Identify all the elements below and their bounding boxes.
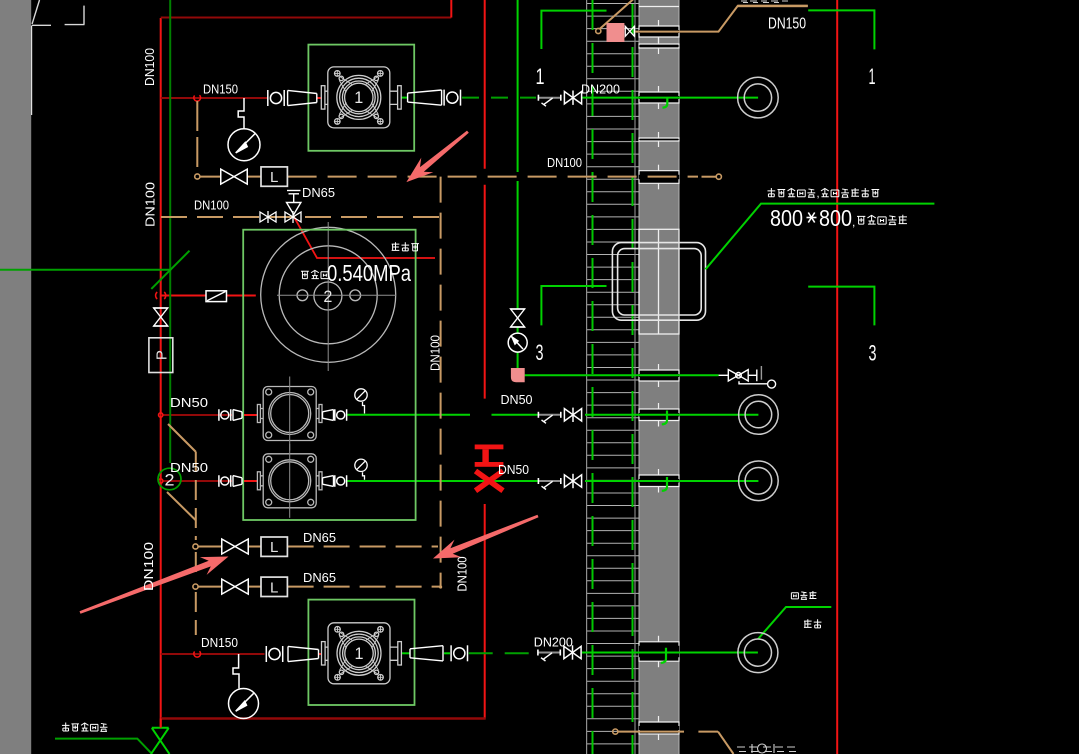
svg-text:L: L (270, 579, 278, 596)
valve V5 DN50 upper-left (219, 409, 231, 421)
pipe: DN100 tan line y=217 (161, 216, 441, 218)
pipe: DN200 top discharge green (dashed then solid) (402, 97, 408, 99)
reducer DN50 upper-left (233, 410, 242, 421)
pipe: red branch to tank (check valve line) (161, 295, 206, 297)
svg-text:DN100: DN100 (194, 198, 229, 213)
node: J-hook y=652 (661, 648, 666, 663)
wire: relief valve red leader (294, 216, 436, 258)
valve V3 DN150 bottom-left (266, 646, 282, 662)
wire: green slash across junction (151, 251, 189, 289)
valve V2 DN150 top-right (444, 90, 460, 106)
label: upper plate note (Chinese) (857, 216, 865, 224)
pipe: DN65 lower-2 (tan) (193, 584, 198, 589)
marker: arrow A3 (80, 557, 229, 614)
riser R4 (bell mouth) (738, 633, 778, 673)
svg-text:DN100: DN100 (455, 557, 470, 592)
pipe: DN150 top suction line (dark red) (161, 97, 268, 99)
pipe: bottom red header (dark) (161, 717, 486, 719)
wire: section bracket mid-right (808, 287, 874, 326)
ladder left stringer (586, 0, 588, 754)
marker: pink square mid (511, 368, 525, 382)
marker: pink square top (instrument) (607, 23, 625, 42)
label: manhole note (Chinese) (767, 188, 775, 197)
tank/pump 2 (large circle, plan) (261, 222, 396, 371)
wire: section bracket mid-left (541, 286, 606, 325)
node: junction DN50 upper (159, 413, 163, 417)
svg-text:DN65: DN65 (303, 570, 336, 585)
pipe: DN50 upper green discharge (346, 414, 470, 416)
svg-text:0.540MPa: 0.540MPa (327, 260, 411, 286)
wall openings (pipe sleeves) (639, 26, 679, 37)
gauge on green riser (508, 333, 527, 352)
box: pump P1 bottom enclosure (308, 600, 414, 705)
label: ditto (Chinese) (804, 619, 812, 627)
svg-text:DN50: DN50 (501, 392, 533, 407)
svg-text:DN100: DN100 (547, 155, 582, 170)
svg-text:DN150: DN150 (201, 635, 238, 650)
relief valve (spring) symbol (287, 191, 301, 215)
valve V19 on green riser (510, 309, 525, 327)
manhole cover (double rounded rect) (612, 243, 705, 321)
node: junction ring DN150 bottom (194, 651, 201, 657)
pump P1 bottom (322, 623, 402, 684)
reducer top-left (288, 90, 317, 105)
top-left partial wall symbols (32, 0, 39, 24)
svg-text:1: 1 (355, 645, 364, 663)
valve V17 DN200 bottom at ladder (538, 650, 560, 662)
svg-text:1: 1 (536, 64, 545, 89)
reducer top-right (408, 90, 442, 105)
partial text sliver bottom right (737, 744, 796, 753)
valve V18 on sensor branch (153, 308, 168, 326)
svg-text:3: 3 (536, 340, 544, 365)
svg-text:L: L (270, 169, 278, 186)
node: pump group tag 2 (green ellipse) (158, 468, 181, 490)
node: J-hook y=481 (662, 477, 667, 491)
gauge PG1 with siphon, top (238, 98, 244, 129)
svg-text:,: , (852, 215, 855, 229)
label: relief valve (Chinese) (392, 242, 400, 250)
pipe: tan vertical x=441 (440, 177, 442, 587)
ladder / stair treads (587, 4, 639, 744)
pipe: main red riser left (vertical) (160, 18, 162, 727)
svg-text:800: 800 (770, 205, 803, 231)
green guide line left (dashed) (592, 0, 594, 754)
pipe: DN200 bottom discharge green (402, 652, 410, 654)
svg-text:DN50: DN50 (498, 462, 529, 477)
manhole wall panel (639, 229, 679, 334)
pump P3 lower DN50 (257, 444, 322, 518)
valve V6 DN50 upper-right (335, 409, 347, 421)
pipe: DN150 bottom suction line (dark red) (161, 653, 265, 655)
wire: section bracket top-left (541, 11, 606, 49)
svg-text:DN100: DN100 (141, 542, 156, 591)
node: J-hook at wall top (663, 98, 668, 107)
svg-text:DN100: DN100 (143, 182, 158, 227)
svg-text:DN50: DN50 (170, 395, 208, 410)
svg-text:3: 3 (869, 341, 877, 366)
wire: tank level gauge tan leader (596, 28, 601, 33)
valve V12 small DN100 (260, 211, 276, 223)
reducer bottom-left (288, 646, 319, 661)
pipe: DN50 lower green discharge (346, 480, 538, 482)
valve V7 DN50 lower-left (219, 475, 231, 487)
valve V10 butterfly DN65 (222, 539, 249, 554)
svg-text:DN65: DN65 (302, 185, 335, 200)
reducer DN50 upper-right (323, 410, 334, 421)
pipe: tan vertical x=196 (195, 452, 197, 540)
riser R3 (739, 461, 779, 501)
svg-text:DN150: DN150 (203, 82, 238, 97)
wire: section bracket top-right (808, 10, 874, 49)
label: HX red mark (rotated) (475, 445, 504, 467)
gauge G2 DN50 lower (355, 459, 367, 480)
valve V15 DN50 at ladder (538, 412, 560, 424)
pipe: DN50 lower line (dark red) (161, 480, 232, 482)
node: junction marker at red branch (156, 292, 166, 299)
gauge PG2 with siphon, bottom (233, 654, 239, 688)
green guide line right (dashed) (632, 4, 634, 754)
valve V8 DN50 lower-right (335, 475, 347, 487)
valve V13 small DN100 (relief) (285, 211, 301, 223)
gauge G1 DN50 upper (355, 389, 367, 414)
pipe: green vertical conduit x=170 (169, 0, 171, 463)
pipe: red vertical x=485 (484, 0, 486, 169)
valve V20 with cap, line y=375 (719, 366, 776, 388)
valve V14 DN200 top at ladder (538, 95, 560, 107)
box: pump P1 top enclosure (308, 45, 414, 151)
svg-text:1: 1 (354, 89, 363, 107)
marker: arrow A2 (433, 515, 539, 559)
partial text sliver top (741, 1, 788, 3)
wire: manhole green leader (706, 204, 935, 270)
node: J-hook y=415 (662, 411, 667, 425)
pipe: top red header (dark) (161, 17, 452, 19)
valve V4 DN150 bottom-right (451, 645, 467, 661)
svg-text:L: L (270, 539, 278, 556)
pump P3 upper DN50 (257, 377, 322, 451)
svg-text:2: 2 (323, 288, 332, 306)
svg-text:800: 800 (819, 205, 852, 231)
svg-text:DN100: DN100 (142, 48, 157, 86)
limit switch box L1 (261, 167, 287, 186)
box: pump group 2 enclosure (243, 230, 415, 520)
label: water hammer arrester (Chinese) (62, 723, 70, 732)
svg-text:DN50: DN50 (170, 460, 208, 475)
pipe: green horizontal inlet y=270 (0, 269, 170, 271)
pipe: red vertical x=837 (column line) (836, 0, 838, 754)
node: junction DN50 lower (159, 479, 163, 483)
limit switch box L2 (261, 537, 287, 556)
water hammer arrester leader (55, 739, 152, 754)
wall: central gray wall (639, 0, 679, 754)
ladder right stringer (634, 0, 636, 754)
svg-text:1: 1 (869, 64, 876, 89)
pipe: green vertical x=517 (517, 0, 519, 172)
wire: red stub up at x=451 (450, 0, 452, 18)
svg-text:DN65: DN65 (303, 530, 336, 545)
valve V16 DN50 at ladder (538, 478, 560, 490)
riser R1 (double circle) (738, 77, 779, 118)
node: junction ring DN150 top (194, 95, 201, 101)
pipe: tan line bottom wall crossing (613, 729, 618, 734)
svg-text:,: , (817, 188, 820, 200)
pipe: DN65 bypass top (tan) (200, 176, 221, 178)
pump P1 top (butterfly pump, plan view) (321, 67, 401, 128)
reducer bottom-right (410, 646, 443, 661)
svg-text:DN200: DN200 (581, 82, 620, 97)
pipe: DN65 lower-1 (tan) (193, 544, 198, 549)
reducer DN50 lower-right (323, 476, 334, 487)
reducer DN50 lower-left (233, 476, 242, 487)
svg-text:DN150: DN150 (768, 16, 806, 33)
svg-text:DN100: DN100 (428, 335, 443, 371)
pipe: DN50 upper line (dark red) (161, 414, 232, 416)
riser R2 (739, 395, 779, 435)
pipe: tan bypass diagonals (168, 424, 196, 452)
wall: left gray bar (0, 0, 31, 754)
valve V1 gate DN150 top-left (268, 90, 284, 106)
check valve (box with slash) (206, 291, 227, 302)
limit switch box L3 (261, 577, 287, 596)
valve V11 butterfly DN65 (222, 579, 249, 594)
pipe: green line y=375 (525, 374, 719, 376)
svg-text:DN200: DN200 (534, 635, 573, 650)
label: bell mouth (Chinese) (791, 593, 798, 599)
marker: arrow A1 (406, 131, 468, 183)
valve V9 butterfly DN65 top (221, 169, 248, 184)
pressure sensor P box (149, 338, 173, 373)
wire: bell-mouth green leader (758, 607, 831, 639)
pipe: tan drop from DN150 top (196, 101, 198, 167)
label: relief setting (Chinese) (301, 271, 309, 278)
black break square over crossing (479, 399, 492, 420)
water hammer arrester symbol (151, 728, 170, 754)
svg-text:P: P (154, 350, 171, 360)
valve at level gauge (small) (625, 26, 634, 36)
